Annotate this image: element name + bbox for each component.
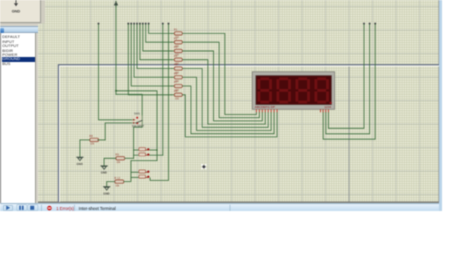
svg-text:R6: R6: [174, 71, 178, 75]
svg-text:GND: GND: [12, 10, 21, 14]
node SEG6 terminal: [133, 23, 135, 25]
power terminal +5V: [115, 1, 117, 6]
svg-text:R 12: R 12: [114, 176, 120, 180]
node SEG2 terminal: [145, 23, 147, 25]
svg-text:1234: 1234: [324, 105, 331, 109]
svg-text:GND: GND: [101, 171, 107, 175]
wire power branch to buttons column: [116, 91, 157, 161]
wire R12 to ground: [107, 182, 115, 187]
resistor R1: [172, 32, 175, 34]
resistor R3: [172, 50, 175, 52]
wire SW1 pole lever: [136, 120, 142, 123]
wire SEG8 terminal to resistor R8: [128, 24, 171, 94]
sheet border (blue): [58, 65, 439, 202]
wire BTN2 to terminal A vertical: [150, 154, 163, 156]
wire resistor R7 to display pin 7: [183, 86, 275, 134]
node DIGIT3 terminal: [369, 23, 371, 25]
resistor R12: [115, 180, 124, 183]
display U1 pins: [256, 109, 328, 112]
wire resistor R6 to display pin 6: [183, 77, 272, 130]
node DIGIT4 terminal: [363, 23, 365, 25]
wire display digit pin to DIGIT4 terminal: [328, 24, 364, 128]
wire power jog through SW1 pole: [116, 94, 142, 158]
switch SW1: [132, 115, 143, 125]
node terminal A: [162, 23, 164, 25]
wire display digit pin to DIGIT2 terminal: [323, 24, 375, 139]
left panel column background: [0, 0, 38, 203]
wire R9 to ground: [104, 158, 116, 166]
wire power rail down: [115, 6, 117, 95]
junction power/B1: [156, 149, 157, 150]
wire power branch bottom to pair2 rail: [131, 161, 157, 181]
svg-text:R4: R4: [174, 54, 178, 58]
wire resistor R8 to display pin 8: [183, 95, 277, 137]
wire SEG5 terminal to resistor R5: [137, 24, 172, 68]
wire SEG4 terminal to resistor R4: [140, 24, 172, 59]
svg-text:GND: GND: [77, 162, 83, 166]
node terminal B: [168, 23, 170, 25]
canvas area with grid: [38, 0, 439, 203]
sheet border highlight: [60, 66, 440, 202]
wire power to button B1: [150, 149, 157, 151]
ground G3: [104, 186, 110, 188]
svg-text:GND: GND: [103, 191, 109, 195]
stop button: [30, 206, 34, 210]
wire SEG7 terminal to resistor R7: [131, 24, 171, 86]
resistor R8b: [90, 138, 99, 141]
resistor R9: [116, 157, 125, 160]
wire resistor R1 to display pin 1: [183, 33, 257, 114]
wire SW1 lower throw to resistor R8b: [105, 123, 133, 140]
ground G2: [101, 165, 107, 167]
window right edge: [439, 0, 441, 211]
svg-text:R3: R3: [174, 45, 178, 49]
ground terminal preview symbol: [15, 0, 17, 3]
wire SEG3 terminal to resistor R3: [143, 24, 172, 51]
push-button BTN2: [139, 153, 146, 156]
wire R9 right to pair1 rail: [125, 157, 134, 159]
ground G1: [77, 156, 83, 158]
object selector listbox: [0, 33, 36, 202]
wire SEG1 terminal to resistor R1: [149, 24, 172, 33]
wire SEG6 terminal to resistor R6: [134, 24, 172, 77]
node SW terminal: [98, 23, 100, 25]
node DIGIT2 terminal: [374, 23, 376, 25]
resistor R5: [172, 67, 175, 69]
major grid lines: [38, 0, 439, 203]
resistor R7: [172, 85, 175, 87]
resistor R8: [172, 94, 175, 96]
pause button: [19, 206, 21, 210]
wire resistor R2 to display pin 2: [183, 42, 260, 118]
display U1 (4-digit 7-segment): [252, 72, 334, 110]
wire SW terminal to SW1 upper throw: [99, 24, 133, 120]
node SEG5 terminal: [136, 23, 138, 25]
svg-text:R8: R8: [89, 134, 93, 138]
svg-text:SW1: SW1: [134, 112, 141, 116]
left panel preview pane: [0, 0, 41, 23]
wire display digit pin to DIGIT3 terminal: [326, 24, 370, 134]
wire terminal B down to BTN4: [150, 24, 168, 180]
svg-text:R8: R8: [174, 89, 178, 93]
resistor R6: [172, 76, 175, 78]
svg-text:ABCDEFG DP: ABCDEFG DP: [255, 105, 275, 109]
wire R8b to ground: [80, 140, 90, 157]
object selector header bar: [0, 26, 38, 33]
canvas border right/bottom: [38, 0, 439, 202]
push-button BTN1: [139, 148, 146, 151]
strong major line x=349: [348, 65, 350, 202]
svg-text:R9: R9: [115, 153, 119, 157]
svg-text:R1: R1: [174, 28, 178, 32]
svg-text:SW-SPDT: SW-SPDT: [132, 124, 145, 128]
svg-text:330: 330: [175, 98, 180, 101]
preview pane right divider: [41, 0, 45, 23]
wire resistor R5 to display pin 5: [183, 68, 269, 127]
wire resistor R4 to display pin 4: [183, 60, 266, 124]
wire button BTN2 left stub: [134, 154, 139, 156]
wire button BTN3 left stub: [131, 171, 139, 173]
status / animation bar: [0, 203, 442, 211]
node SEG3 terminal: [142, 23, 144, 25]
node SEG1 terminal: [148, 23, 150, 25]
wire button BTN4 left stub: [131, 176, 139, 178]
play button: [3, 205, 13, 211]
node SEG8 terminal: [127, 23, 129, 25]
error icon: [47, 206, 52, 211]
svg-text:Inter-sheet Terminal: Inter-sheet Terminal: [79, 206, 116, 211]
wire R12 right to pair2 rail: [124, 181, 131, 183]
svg-text:R5: R5: [174, 63, 178, 67]
junction power branch: [115, 90, 117, 92]
push-button BTN4: [139, 175, 146, 178]
svg-text:R2: R2: [174, 36, 178, 40]
push-button BTN3: [139, 170, 146, 173]
wire terminal A down: [162, 24, 164, 155]
resistor R4: [172, 59, 175, 61]
wire SEG2 terminal to resistor R2: [146, 24, 172, 42]
node SEG4 terminal: [139, 23, 141, 25]
node SEG7 terminal: [130, 23, 132, 25]
svg-text:1 Error(s): 1 Error(s): [56, 206, 74, 211]
wire resistor R3 to display pin 3: [183, 51, 263, 121]
svg-text:R7: R7: [174, 80, 178, 84]
wire button BTN1 left stub: [134, 149, 139, 151]
origin marker node: [202, 164, 207, 169]
resistor R2: [172, 41, 175, 43]
